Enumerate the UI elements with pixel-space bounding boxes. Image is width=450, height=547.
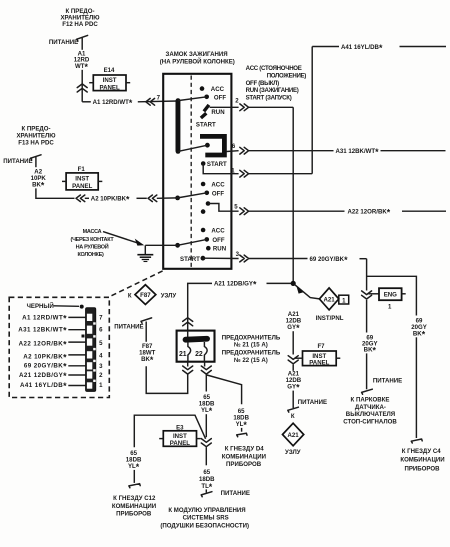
pin numbers 7..1	[99, 315, 103, 389]
power terminal A1 (ПИТАНИЕ)	[49, 35, 88, 45]
svg-text:СИСТЕМЫ SRS: СИСТЕМЫ SRS	[183, 515, 229, 522]
label 65 18DB TL* (SRS)	[199, 469, 215, 492]
pin 4 lead A2	[23, 352, 85, 362]
wire into switch section 3	[157, 197, 178, 199]
wire C4 branch continues	[415, 337, 417, 438]
power terminal (ПИТАНИЕ) on 69	[362, 377, 403, 394]
wire wiper to OFF (section 1)	[178, 97, 207, 101]
wire A2 vertical (lower) + corner	[36, 188, 75, 198]
label A2 10PK BK*	[31, 168, 47, 190]
svg-text:F87: F87	[140, 292, 151, 299]
svg-text:№ 21 (15 А): № 21 (15 А)	[234, 342, 268, 349]
wire A1 vertical (lower)	[81, 70, 83, 102]
terminal to C4	[411, 439, 422, 443]
svg-text:A21: A21	[288, 432, 300, 439]
contact plate (section 2)	[200, 136, 224, 155]
svg-text:3: 3	[99, 363, 103, 370]
svg-text:(ПОДУШКИ БЕЗОПАСНОСТИ): (ПОДУШКИ БЕЗОПАСНОСТИ)	[160, 522, 249, 529]
svg-text:PANEL: PANEL	[309, 359, 329, 366]
svg-text:ACC (СТОЯНОЧНОЕ: ACC (СТОЯНОЧНОЕ	[246, 65, 302, 72]
contact OFF (section 4)	[205, 237, 225, 244]
node: wiper top junction	[176, 98, 181, 103]
power terminal A2 (ПИТАНИЕ)	[3, 155, 41, 165]
svg-text:A21 12DB/GY*: A21 12DB/GY*	[214, 280, 257, 290]
label 69 20GY BK* (right)	[411, 317, 427, 339]
wire 69 to power terminal	[366, 353, 368, 389]
grid callout F7 INST PANEL	[295, 343, 341, 366]
power terminal (ПИТАНИЕ) on A21	[288, 399, 327, 412]
contact OFF (section 1)	[204, 94, 226, 101]
grid callout ENG 1	[369, 288, 406, 311]
label F87 18WT BK*	[139, 343, 156, 365]
svg-text:К МОДУЛЮ УПРАВЛЕНИЯ: К МОДУЛЮ УПРАВЛЕНИЯ	[168, 507, 245, 514]
svg-text:ACC: ACC	[211, 86, 225, 93]
svg-text:7: 7	[157, 95, 161, 102]
dashed link switch to connector box	[110, 271, 162, 296]
power terminal (ПИТАНИЕ) on F87	[114, 318, 151, 331]
svg-text:ЗАМОК ЗАЖИГАНИЯ: ЗАМОК ЗАЖИГАНИЯ	[166, 51, 228, 58]
contact RUN (section 4)	[206, 246, 226, 253]
wire 65 from fuse 22	[205, 375, 207, 392]
note: to socket C4 instrument cluster	[400, 448, 444, 472]
wire junction to OFF (section 4)	[178, 239, 207, 245]
note: to park/stop-lamp switch sensor	[343, 397, 397, 426]
svg-text:К: К	[291, 413, 295, 420]
svg-text:ХРАНИТЕЛЮ: ХРАНИТЕЛЮ	[16, 133, 56, 140]
label ЧЕРНЫЙ with leader	[27, 302, 84, 310]
fuse labels	[222, 334, 281, 364]
svg-text:2: 2	[235, 98, 239, 105]
note: to fuse F12 on PDC	[60, 8, 100, 28]
svg-text:ПРИБОРОВ: ПРИБОРОВ	[404, 465, 440, 472]
wire F87 to fuse 21	[146, 366, 188, 393]
pin 2 lead A21	[19, 371, 86, 381]
svg-text:A31 12BK/WT*: A31 12BK/WT*	[18, 326, 67, 336]
svg-text:21: 21	[179, 351, 187, 358]
wire D4 stub + terminal	[237, 428, 247, 437]
svg-text:OFF: OFF	[212, 190, 224, 197]
svg-text:START: START	[180, 256, 200, 263]
inline connector on A2 wire (left)	[76, 195, 85, 202]
svg-text:18DB: 18DB	[199, 476, 215, 483]
svg-text:F7: F7	[317, 343, 325, 350]
svg-text:МАССА: МАССА	[83, 229, 102, 235]
svg-text:A2 10PK/BK*: A2 10PK/BK*	[23, 352, 67, 362]
svg-text:К: К	[128, 293, 132, 300]
svg-text:E14: E14	[104, 67, 115, 74]
svg-text:BK*: BK*	[32, 180, 45, 190]
contact ACC (section 4)	[201, 227, 225, 234]
svg-text:INST/PNL: INST/PNL	[316, 315, 344, 322]
svg-text:65: 65	[203, 469, 210, 476]
grid callout E3 INST PANEL	[159, 424, 200, 446]
svg-text:К ГНЕЗДУ C4: К ГНЕЗДУ C4	[402, 448, 441, 455]
pin 2 wire	[210, 98, 294, 111]
svg-text:КОЛОНКЕ): КОЛОНКЕ)	[77, 252, 104, 258]
svg-text:НА РУЛЕВОЙ: НА РУЛЕВОЙ	[76, 242, 109, 250]
svg-text:TL*: TL*	[201, 482, 212, 492]
svg-text:(ЧЕРЕЗ КОНТАКТ: (ЧЕРЕЗ КОНТАКТ	[71, 237, 115, 243]
contact (section 3, run)	[206, 201, 211, 206]
wire A2 vertical (upper)	[35, 157, 37, 168]
pin 3 lead 69	[24, 362, 86, 372]
inline connector on 65 wire	[201, 439, 211, 447]
label A21 12DB GY* (lower)	[286, 371, 302, 393]
svg-text:A2 10PK/BK*: A2 10PK/BK*	[91, 195, 130, 205]
svg-text:7: 7	[99, 315, 103, 322]
svg-text:1: 1	[342, 297, 346, 304]
svg-text:BK*: BK*	[413, 329, 426, 339]
fuse 21 output connector	[183, 366, 193, 374]
contact ACC (section 3)	[201, 181, 225, 188]
svg-text:ACC: ACC	[211, 227, 225, 234]
svg-text:ПИТАНИЕ: ПИТАНИЕ	[298, 399, 327, 406]
svg-text:ЧЕРНЫЙ: ЧЕРНЫЙ	[27, 302, 54, 310]
svg-text:2: 2	[99, 372, 103, 379]
svg-text:СТОП-СИГНАЛОВ: СТОП-СИГНАЛОВ	[343, 418, 397, 425]
svg-text:УЗЛУ: УЗЛУ	[161, 292, 177, 299]
fuse 22 output connector	[201, 366, 211, 374]
svg-text:A1 12RD/WT*: A1 12RD/WT*	[22, 314, 67, 324]
wire F87 upper	[145, 322, 147, 342]
node symbol A21 / INST/PNL	[316, 288, 349, 322]
wire A21 continues	[292, 365, 294, 371]
wire 65 continues down	[205, 414, 207, 437]
svg-text:RUN: RUN	[213, 246, 226, 253]
wire C12 stub + terminal	[129, 470, 140, 488]
svg-text:УЗЛУ: УЗЛУ	[285, 449, 301, 456]
svg-text:START: START	[207, 161, 227, 168]
svg-text:К ГНЕЗДУ C12: К ГНЕЗДУ C12	[113, 495, 156, 502]
svg-text:A22 12OR/BK*: A22 12OR/BK*	[348, 208, 391, 218]
svg-text:BK*: BK*	[141, 355, 154, 365]
label A21 12DB GY* (upper)	[286, 311, 302, 333]
contact ACC (section 1)	[200, 86, 225, 93]
svg-text:A31 12BK/WT*: A31 12BK/WT*	[336, 147, 380, 157]
wire 69 continues	[366, 300, 368, 333]
inline connector on pin7 wire	[146, 98, 155, 105]
label 65 18DB YL* (main)	[199, 394, 215, 416]
svg-text:22: 22	[195, 351, 203, 358]
wire A21 to power terminal	[292, 391, 294, 408]
wire A21 horizontal from fuse block	[188, 280, 294, 331]
svg-text:A21: A21	[324, 296, 336, 303]
svg-text:OFF (ВЫКЛ): OFF (ВЫКЛ)	[246, 80, 280, 87]
pin 7 lead A1	[22, 314, 85, 324]
svg-text:RUN (ЗАЖИГАНИЕ): RUN (ЗАЖИГАНИЕ)	[246, 87, 299, 94]
svg-text:КОМБИНАЦИИ: КОМБИНАЦИИ	[112, 503, 156, 510]
note: to socket C12 instrument cluster	[112, 495, 156, 518]
small mark on connector edge	[82, 335, 85, 338]
svg-text:ПИТАНИЕ: ПИТАНИЕ	[49, 39, 78, 46]
pin 3 wire / 69 20GY/BK*	[203, 251, 367, 265]
svg-text:69 20GY/BK*: 69 20GY/BK*	[24, 362, 67, 372]
svg-text:BK*: BK*	[364, 345, 377, 355]
node A21 junction	[291, 281, 296, 286]
svg-text:ПИТАНИЕ: ПИТАНИЕ	[373, 377, 402, 384]
grid callout E14 INST PANEL	[89, 67, 130, 92]
contact (section 3, start)	[201, 209, 206, 214]
contact node (section 2)	[205, 143, 210, 148]
ground symbol	[137, 245, 153, 261]
svg-text:PANEL: PANEL	[170, 440, 190, 447]
svg-text:INST: INST	[75, 176, 89, 183]
svg-text:КОМБИНАЦИИ: КОМБИНАЦИИ	[222, 453, 266, 460]
svg-text:F1: F1	[78, 166, 86, 173]
svg-text:1: 1	[99, 382, 103, 389]
switch position legend	[246, 65, 307, 102]
ground note МАССА	[71, 229, 115, 258]
svg-text:ВЫКЛЮЧАТЕЛЯ: ВЫКЛЮЧАТЕЛЯ	[346, 411, 395, 418]
wire A21 below label	[292, 331, 294, 354]
label 65 18DB YL* (D4 branch)	[233, 408, 249, 430]
wire wiper to section-2 contact	[178, 145, 207, 151]
connector body C12 (7-way)	[86, 308, 96, 392]
svg-text:5: 5	[99, 340, 103, 347]
svg-text:6: 6	[232, 143, 236, 150]
svg-text:ПИТАНИЕ: ПИТАНИЕ	[3, 158, 32, 165]
svg-text:К ПРЕДО-: К ПРЕДО-	[21, 126, 50, 133]
pin 5 wire / A22 12OR/BK*	[208, 204, 446, 218]
label 69 20GY BK* (left)	[362, 334, 378, 355]
wire 65 branch to D4 (diagonal)	[207, 375, 242, 404]
svg-text:A22 12OR/BK*: A22 12OR/BK*	[19, 340, 68, 350]
wire МАССА to switch	[103, 232, 178, 246]
svg-text:ПИТАНИЕ: ПИТАНИЕ	[114, 324, 143, 331]
svg-text:№ 22 (15 А): № 22 (15 А)	[234, 357, 268, 364]
label A1 12RD WT*	[74, 50, 90, 71]
pin 5 lead A22	[19, 340, 86, 350]
svg-text:6: 6	[99, 327, 103, 334]
pin 6 lead A31	[18, 326, 85, 336]
wire A21 riser (pin 2 down to junction)	[292, 107, 294, 283]
wire A1 vertical (upper)	[81, 38, 83, 50]
node reference: К F87 УЗЛУ	[128, 285, 177, 305]
svg-text:RUN: RUN	[211, 109, 224, 116]
inline connector on wire A1	[77, 84, 87, 92]
contact OFF (section 3)	[205, 190, 225, 197]
svg-text:F13 НА PDC: F13 НА PDC	[18, 140, 54, 147]
svg-text:К ПАРКОВКЕ: К ПАРКОВКЕ	[351, 397, 390, 404]
svg-text:START (ЗАПУСК): START (ЗАПУСК)	[246, 95, 292, 102]
svg-text:F12 НА PDC: F12 НА PDC	[62, 21, 98, 28]
wire continues to switch pin 7	[138, 100, 178, 103]
svg-text:ENG: ENG	[384, 292, 397, 299]
svg-text:ПРЕДОХРАНИТЕЛЬ: ПРЕДОХРАНИТЕЛЬ	[222, 334, 281, 341]
svg-text:ПРИБОРОВ: ПРИБОРОВ	[226, 461, 262, 468]
svg-text:ACC: ACC	[211, 181, 225, 188]
note: to fuse F13 on PDC	[16, 126, 56, 147]
contact START (section 2)	[201, 161, 227, 168]
node: section-4 left junction	[175, 243, 180, 248]
pin 6 wire / A31 12BK/WT*	[227, 143, 446, 157]
label A2 10PK/BK*	[85, 195, 147, 205]
svg-text:START: START	[196, 121, 216, 128]
connector dashed box	[9, 297, 109, 397]
svg-text:ДАТЧИКА-: ДАТЧИКА-	[355, 404, 386, 411]
inline connector above fuse block	[183, 318, 193, 326]
svg-text:4: 4	[99, 353, 103, 360]
wire junction to node diamond	[295, 285, 320, 299]
wire 69 branch to C4	[367, 276, 417, 315]
note: to socket D4 instrument cluster	[222, 446, 266, 468]
wire junction to OFF (section 3)	[178, 193, 207, 198]
svg-text:ПОЛОЖЕНИЕ): ПОЛОЖЕНИЕ)	[267, 72, 307, 79]
wire A1 horizontal to pin 7	[82, 101, 91, 103]
contact START (section 4)	[180, 256, 205, 263]
grid callout F1 INST PANEL	[62, 166, 102, 190]
inline connector on A21 wire	[288, 356, 298, 364]
ignition switch box	[163, 74, 231, 269]
svg-text:(НА РУЛЕВОЙ КОЛОНКЕ): (НА РУЛЕВОЙ КОЛОНКЕ)	[160, 57, 235, 65]
switch wiper bar	[176, 100, 181, 152]
svg-text:ПИТАНИЕ: ПИТАНИЕ	[221, 490, 250, 497]
pin 1 wire	[203, 164, 312, 178]
svg-text:К ГНЕЗДУ D4: К ГНЕЗДУ D4	[225, 446, 264, 453]
svg-text:INST: INST	[103, 77, 117, 84]
wire branch to C12: corner + diagonal	[134, 415, 205, 447]
wire A41 riser	[311, 47, 313, 174]
pin 1 lead A41	[20, 381, 86, 391]
node: section-3 left junction	[175, 196, 180, 201]
svg-text:1: 1	[388, 304, 392, 311]
note: to SRS control module	[160, 507, 249, 530]
ignition switch title	[160, 51, 235, 65]
wire A41 16YL/DB* horizontal	[312, 43, 446, 53]
svg-text:ПРЕДОХРАНИТЕЛЬ: ПРЕДОХРАНИТЕЛЬ	[222, 350, 281, 357]
svg-text:3: 3	[236, 251, 240, 258]
node: wiper bottom junction	[176, 149, 181, 154]
wire 69 riser	[366, 259, 368, 291]
svg-text:A41 16YL/DB*: A41 16YL/DB*	[20, 381, 67, 391]
svg-text:ПРИБОРОВ: ПРИБОРОВ	[116, 511, 152, 518]
label 65 18DB YL* (C12 branch)	[126, 450, 142, 472]
svg-text:PANEL: PANEL	[72, 183, 92, 190]
svg-text:A21 12DB/GY*: A21 12DB/GY*	[19, 371, 67, 381]
inline connector on 69 wire	[362, 291, 372, 299]
dashed divider inside switch	[190, 76, 192, 268]
svg-text:69 20GY/BK*: 69 20GY/BK*	[310, 255, 349, 265]
svg-text:OFF: OFF	[212, 237, 224, 244]
svg-text:OFF: OFF	[214, 94, 226, 101]
wire 65 below connector	[205, 447, 207, 465]
fuse block 21/22	[177, 331, 215, 367]
svg-text:КОМБИНАЦИИ: КОМБИНАЦИИ	[400, 457, 444, 464]
wire SRS stub + power terminal	[201, 489, 250, 497]
RUN wiper contact marks	[201, 105, 225, 118]
svg-text:5: 5	[234, 204, 238, 211]
svg-text:A41 16YL/DB*: A41 16YL/DB*	[341, 43, 383, 53]
inline connector on A2 wire (right)	[148, 195, 157, 202]
svg-text:PANEL: PANEL	[99, 84, 119, 91]
node reference: К A21 УЗЛУ	[283, 413, 304, 456]
svg-text:A1 12RD/WT*: A1 12RD/WT*	[93, 98, 133, 108]
